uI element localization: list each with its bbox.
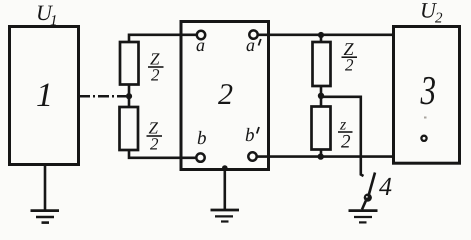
ground (below switch 4) (349, 201, 378, 223)
label U2 (420, 0, 443, 27)
svg-text:1: 1 (36, 77, 53, 114)
svg-text:2: 2 (150, 135, 159, 154)
wire (terminal b' to block 3) (257, 155, 394, 158)
terminal a (196, 31, 205, 55)
node (right divider midpoint junction) (318, 86, 324, 107)
value label Z/2 (bottom right) (338, 117, 353, 153)
svg-text:3: 3 (420, 67, 436, 113)
wire (terminal a' to block 3) (258, 33, 394, 36)
svg-text:2: 2 (151, 66, 160, 85)
terminal b' (245, 125, 259, 161)
svg-text:2: 2 (345, 56, 354, 75)
ground (below block 2) (211, 165, 240, 221)
label U1 (36, 0, 58, 29)
wire (left divider top to terminal a) (129, 35, 197, 42)
resistor Z/2 (top right) (313, 42, 331, 86)
resistor Z/2 (bottom right) (312, 107, 331, 150)
resistor Z/2 (top left) (120, 42, 139, 85)
generator block 1 (10, 27, 79, 165)
switch 4 (364, 172, 392, 202)
two-port network block 2 (181, 22, 269, 170)
svg-text:a: a (196, 35, 205, 55)
ground (below block 1) (31, 165, 60, 223)
value label Z/2 (bottom left) (147, 119, 163, 154)
svg-text:1: 1 (50, 13, 58, 29)
wire (dash-dot from block 1 to divider midpoint) (79, 95, 126, 98)
svg-text:2: 2 (435, 11, 443, 27)
wire (right midpoint to switch) (321, 97, 364, 176)
svg-text:b: b (245, 125, 255, 146)
resistor Z/2 (bottom left) (120, 107, 139, 150)
indicator o (inside block 3) (421, 117, 426, 141)
terminal a' (246, 30, 261, 55)
node (left divider midpoint junction) (126, 85, 132, 108)
node (right divider top) (318, 32, 324, 42)
wire (left divider bottom to terminal b) (129, 150, 196, 158)
svg-text:2: 2 (218, 78, 233, 111)
svg-text:4: 4 (379, 172, 392, 201)
load block 3 (394, 27, 460, 164)
terminal b (196, 128, 206, 162)
value label Z/2 (top right) (342, 39, 358, 75)
value label Z/2 (top left) (148, 50, 164, 85)
svg-text:b: b (197, 128, 207, 149)
svg-text:2: 2 (341, 132, 351, 153)
node (right divider bottom) (318, 150, 324, 160)
svg-text:a: a (246, 35, 255, 55)
